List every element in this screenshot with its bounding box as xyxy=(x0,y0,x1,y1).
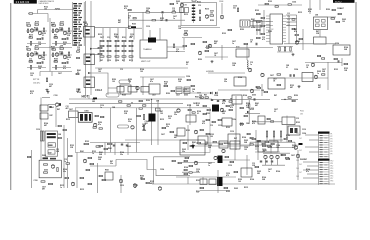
svg-text:470: 470 xyxy=(240,124,243,127)
wire bus x264 xyxy=(263,10,265,35)
component dark U10 top xyxy=(148,38,156,43)
resistor R216 xyxy=(69,155,73,156)
resistor R185 xyxy=(207,109,210,110)
svg-text:1n: 1n xyxy=(250,64,252,66)
svg-text:C12: C12 xyxy=(198,5,201,7)
resistor R217 xyxy=(66,163,70,164)
transistor Q7 xyxy=(55,53,58,56)
svg-text:470: 470 xyxy=(202,122,205,125)
svg-text:P4: P4 xyxy=(331,141,333,143)
resistor R192 xyxy=(240,107,243,108)
svg-text:CHASSIS 11AK19: CHASSIS 11AK19 xyxy=(39,0,54,3)
svg-text:4K7: 4K7 xyxy=(290,86,293,89)
svg-text:SW1: SW1 xyxy=(299,138,302,140)
wire vertical x188 xyxy=(187,125,189,150)
svg-text:R350: R350 xyxy=(122,95,126,97)
wire vertical x218 xyxy=(217,170,219,193)
resistor R258 xyxy=(184,169,187,170)
IC U43 xyxy=(186,115,196,122)
wire vertical x64 xyxy=(63,125,65,188)
svg-text:C417: C417 xyxy=(69,108,73,111)
svg-text:C234: C234 xyxy=(292,1,296,4)
IC U23 xyxy=(268,78,285,89)
IC U22 xyxy=(314,37,327,44)
resistor R214 xyxy=(49,183,53,184)
transistor Q50 xyxy=(250,89,253,92)
connector CN2 header xyxy=(318,159,330,161)
capacitor C111 xyxy=(294,74,295,76)
wire xyxy=(286,21,297,23)
svg-text:C417: C417 xyxy=(291,154,295,157)
resistor R150 xyxy=(279,47,280,51)
svg-text:22n: 22n xyxy=(120,154,123,156)
svg-text:R47: R47 xyxy=(50,114,53,117)
svg-text:100: 100 xyxy=(44,8,47,10)
svg-text:4K7: 4K7 xyxy=(255,104,258,107)
resistor R220 xyxy=(88,157,92,158)
svg-text:22n: 22n xyxy=(128,28,131,30)
IC U44 xyxy=(198,136,208,144)
resistor bank row3 R40 xyxy=(107,50,111,51)
wire xyxy=(257,140,259,160)
wire xyxy=(159,28,161,40)
resistor bank mid R37 xyxy=(122,45,126,46)
svg-text:4K7: 4K7 xyxy=(146,9,149,12)
svg-text:0.1: 0.1 xyxy=(197,113,199,115)
resistor R240 xyxy=(183,142,187,143)
resistor bank top R29 xyxy=(100,40,104,41)
power transistor Q51 dark xyxy=(212,105,219,112)
svg-text:22n: 22n xyxy=(233,7,236,9)
wire xyxy=(167,51,185,53)
svg-text:R215: R215 xyxy=(129,60,133,62)
resistor R155 xyxy=(277,74,281,75)
input arrow xyxy=(88,72,91,74)
resistor R22 xyxy=(52,49,56,50)
svg-text:C310: C310 xyxy=(218,125,222,127)
transistor Q32 xyxy=(314,75,317,78)
wire x295 drop xyxy=(294,142,296,150)
resistor R142 xyxy=(205,50,209,51)
resistor R196 xyxy=(188,109,191,110)
resistor R140 xyxy=(183,45,187,46)
wire drop q81 xyxy=(265,159,267,166)
resistor R152 xyxy=(290,47,291,51)
resistor R175 xyxy=(84,143,89,144)
svg-text:R47: R47 xyxy=(57,108,60,111)
wire bank rail 3 xyxy=(115,40,117,62)
svg-text:R661: R661 xyxy=(251,19,255,21)
transistor Q30 xyxy=(295,41,298,44)
resistor R133 xyxy=(331,18,335,19)
resistor ladder bar 16 xyxy=(74,38,78,39)
junction dot C3 xyxy=(230,98,231,99)
wire vertical x110 xyxy=(110,108,112,153)
diode D60 xyxy=(247,111,249,113)
resistor R127 xyxy=(288,4,291,5)
svg-text:100: 100 xyxy=(160,113,163,115)
svg-text:P2: P2 xyxy=(331,136,333,138)
wire xyxy=(127,143,129,156)
big box PSU primary outline xyxy=(75,108,210,153)
wire xyxy=(240,89,260,91)
resistor R136 xyxy=(257,21,261,22)
svg-text:C234: C234 xyxy=(115,59,119,62)
wire y146 xyxy=(195,145,250,147)
transformer T4 dark core xyxy=(78,113,92,123)
component U67 xyxy=(209,179,216,185)
connector J6 xyxy=(84,77,95,88)
svg-text:HOT: HOT xyxy=(82,95,89,99)
resistor R165 xyxy=(95,115,98,116)
resistor ladder bar 7 xyxy=(73,17,77,18)
svg-text:22n: 22n xyxy=(224,81,227,83)
wire CN1 stub 2 xyxy=(309,139,319,141)
resistor bank row3 R39 xyxy=(100,50,104,51)
svg-text:470: 470 xyxy=(30,92,33,95)
resistor R111 xyxy=(199,17,200,21)
resistor bank top R31 xyxy=(115,40,119,41)
wire xyxy=(205,142,230,144)
svg-text:0.1: 0.1 xyxy=(192,144,194,146)
resistor R235 xyxy=(172,160,175,161)
wire xyxy=(221,3,223,14)
transistor Q5 xyxy=(30,53,33,56)
svg-text:C234: C234 xyxy=(160,168,164,171)
U20 pin left 7 xyxy=(266,32,270,34)
svg-text:D205: D205 xyxy=(252,95,256,97)
resistor bank top R30 xyxy=(107,40,111,41)
resistor R169 xyxy=(58,137,61,138)
resistor R17 xyxy=(27,53,28,57)
resistor bank row4 R48 xyxy=(129,56,133,57)
resistor R21 xyxy=(30,66,31,70)
transistor Q53 xyxy=(194,130,197,133)
wire vertical x158 xyxy=(157,100,159,145)
resistor B2b xyxy=(98,53,102,54)
wire xyxy=(114,143,116,156)
resistor R189 xyxy=(206,119,209,120)
svg-text:P13: P13 xyxy=(331,168,334,170)
svg-text:1n: 1n xyxy=(192,91,194,93)
svg-text:R122: R122 xyxy=(85,141,89,143)
resistor R89 xyxy=(128,9,131,10)
resistor R200 xyxy=(248,97,251,98)
wire xyxy=(256,21,258,36)
resistor R115 xyxy=(237,8,238,12)
svg-text:4K7: 4K7 xyxy=(318,86,321,89)
resistor R248 xyxy=(189,165,193,166)
wire xyxy=(28,13,48,15)
svg-text:0.1: 0.1 xyxy=(292,147,294,149)
resistor R5 xyxy=(29,37,33,38)
resistor R82 xyxy=(76,73,79,74)
svg-text:C417: C417 xyxy=(58,72,62,75)
resistor R81 xyxy=(77,57,80,58)
svg-text:R215: R215 xyxy=(98,34,102,36)
wire vertical x271 xyxy=(270,143,272,153)
transistor Q10 xyxy=(180,3,183,6)
svg-text:C234: C234 xyxy=(142,129,146,132)
resistor R314 xyxy=(318,55,321,56)
resistor bank row3 R41 xyxy=(115,50,119,51)
component bar B3L xyxy=(93,98,97,100)
wire xyxy=(286,14,297,16)
svg-text:R77 1K: R77 1K xyxy=(33,79,40,81)
resistor R186 xyxy=(203,113,206,114)
capacitor C90 xyxy=(162,11,163,13)
filter FL1 xyxy=(253,21,262,28)
svg-text:R122: R122 xyxy=(255,10,259,12)
relay RL3 xyxy=(141,87,149,93)
svg-text:47u: 47u xyxy=(306,170,309,173)
svg-text:47u: 47u xyxy=(246,104,249,107)
resistor ladder bar 12 xyxy=(74,28,78,29)
resistor ladder bar 6 xyxy=(74,15,78,16)
resistor R167 xyxy=(58,125,61,126)
wire vertical x41 xyxy=(40,98,42,161)
wire B2 mid xyxy=(140,76,185,78)
svg-text:P18: P18 xyxy=(331,181,334,183)
resistor R172 xyxy=(137,115,141,116)
svg-text:R122: R122 xyxy=(186,130,190,132)
inductor L6b pill xyxy=(118,125,129,128)
wire CN1 stub 3 xyxy=(305,146,319,148)
svg-text:COL3: COL3 xyxy=(95,88,102,92)
wire vertical x236 xyxy=(235,96,237,150)
IC U53 xyxy=(288,126,300,135)
diode D50 xyxy=(210,92,212,94)
resistor R16 xyxy=(35,48,39,49)
connector J5 xyxy=(84,54,95,65)
svg-text:C310: C310 xyxy=(36,129,40,131)
capacitor C144 xyxy=(280,131,281,137)
svg-text:R661: R661 xyxy=(35,46,39,48)
transistor Q75 xyxy=(194,161,197,164)
capacitor C132 xyxy=(217,101,219,102)
resistor R113 xyxy=(192,0,196,1)
wire xyxy=(47,14,49,23)
wire vertical x190 xyxy=(189,104,191,125)
wire xyxy=(261,84,263,96)
svg-text:R215: R215 xyxy=(83,22,87,24)
svg-text:R350: R350 xyxy=(210,20,214,22)
svg-text:C310: C310 xyxy=(146,26,150,28)
wire xyxy=(27,43,46,45)
svg-text:C55 47u: C55 47u xyxy=(33,83,40,85)
title block top-left xyxy=(14,0,37,4)
wire xyxy=(259,24,261,35)
svg-text:C88: C88 xyxy=(112,107,115,109)
svg-text:SW3: SW3 xyxy=(299,150,302,152)
wire y99 ext1 xyxy=(212,98,270,100)
svg-text:D205: D205 xyxy=(60,22,64,24)
resistor R143 xyxy=(187,79,190,80)
svg-text:R215: R215 xyxy=(298,12,302,14)
svg-text:100: 100 xyxy=(238,181,241,183)
U20 pin right 5 xyxy=(283,26,287,28)
ladder 3-bar D2 xyxy=(277,46,293,48)
resistor R236 xyxy=(178,162,181,163)
svg-text:C417: C417 xyxy=(176,94,180,97)
wire xyxy=(26,30,47,32)
resistor R100 xyxy=(173,44,174,48)
svg-text:100: 100 xyxy=(244,149,247,151)
breaker BR1 xyxy=(236,49,249,57)
winding W1 xyxy=(48,143,55,147)
IC U50 xyxy=(258,116,265,124)
resistor bank row4 R46 xyxy=(115,56,119,57)
transistor Q40 xyxy=(56,103,59,106)
capacitor C151 xyxy=(126,145,128,146)
svg-text:100: 100 xyxy=(210,136,213,138)
resistor R160 xyxy=(41,131,42,141)
svg-text:D205: D205 xyxy=(85,111,89,113)
transformer T1 xyxy=(240,20,250,27)
svg-text:R104: R104 xyxy=(184,166,188,169)
svg-text:C310: C310 xyxy=(120,185,124,187)
capacitor C2 xyxy=(42,37,43,39)
svg-text:C417: C417 xyxy=(161,133,165,136)
svg-text:SW6: SW6 xyxy=(296,168,299,170)
svg-text:2K2: 2K2 xyxy=(257,173,260,175)
wire xyxy=(205,56,228,58)
wire CN2 stub 5 xyxy=(303,177,319,179)
transistor Q2 xyxy=(38,31,41,34)
wire xyxy=(221,45,223,60)
resistor R222 xyxy=(86,169,90,170)
svg-text:2K2: 2K2 xyxy=(140,177,143,179)
svg-text:R350: R350 xyxy=(226,191,230,193)
wire xyxy=(142,77,144,95)
U20 pin left 8 xyxy=(266,35,270,37)
resistor bank top R32 xyxy=(122,40,126,41)
resistor R207 xyxy=(247,133,250,134)
resistor R1 xyxy=(29,13,33,14)
svg-text:C234: C234 xyxy=(337,7,341,10)
svg-text:R104: R104 xyxy=(243,94,247,97)
wire xyxy=(149,30,151,37)
U20 pin left 3 xyxy=(266,21,270,23)
svg-text:D205: D205 xyxy=(184,95,188,97)
capacitor C7 xyxy=(61,53,63,54)
resistor R28 xyxy=(55,66,56,70)
wire vertical x97 B4 xyxy=(97,163,99,193)
inductor L6 pill xyxy=(106,93,119,97)
transistor Q3 xyxy=(55,29,58,32)
resistor ladder bar 11 xyxy=(73,26,77,27)
resistor R195 xyxy=(229,101,232,102)
svg-text:R122: R122 xyxy=(296,122,300,124)
svg-text:C88: C88 xyxy=(261,90,264,92)
wire y77 D2 xyxy=(277,77,328,79)
svg-text:R104: R104 xyxy=(238,76,242,79)
transistor Q6 xyxy=(38,55,41,58)
resistor R193 xyxy=(244,115,247,116)
wire xyxy=(222,159,250,161)
capacitor C165 xyxy=(271,161,273,162)
transistor Q20 xyxy=(205,15,208,18)
wire y103 xyxy=(69,102,183,104)
wire drop q83 xyxy=(277,159,279,166)
transistor Q24 xyxy=(261,73,264,76)
wire main divider y99 xyxy=(69,98,212,100)
svg-text:100: 100 xyxy=(51,48,54,50)
capacitor C60 xyxy=(78,89,80,90)
U20 pin right 6 xyxy=(283,29,287,31)
IC U46 xyxy=(177,128,185,136)
resistor R173 xyxy=(143,115,144,120)
svg-text:R122: R122 xyxy=(122,37,126,39)
wire y152 D4t xyxy=(255,151,280,153)
IC U42 xyxy=(228,134,240,144)
wire x320 link xyxy=(319,30,321,38)
potentiometer VR1 xyxy=(220,15,223,18)
svg-text:R215: R215 xyxy=(244,187,248,189)
svg-text:SW5: SW5 xyxy=(299,164,302,166)
wire y113 xyxy=(245,113,260,115)
wire xyxy=(218,89,248,91)
wire top x310 xyxy=(309,0,311,14)
trimmer bar 6 xyxy=(192,20,195,22)
svg-text:R47: R47 xyxy=(234,137,237,140)
wire xyxy=(108,87,117,89)
resistor R139 xyxy=(261,33,265,34)
triangle marker xyxy=(191,145,195,149)
diode D51 xyxy=(215,92,217,94)
svg-text:P9: P9 xyxy=(331,154,333,156)
resistor R117 xyxy=(203,41,207,42)
wire box double bottom xyxy=(181,27,220,29)
wire xyxy=(250,25,273,27)
wire vertical x31 xyxy=(30,150,32,188)
resistor R154 xyxy=(344,63,348,64)
svg-text:100: 100 xyxy=(98,71,101,73)
resistor R177 xyxy=(108,143,113,144)
resistor R14 xyxy=(55,42,56,46)
svg-text:470: 470 xyxy=(262,38,265,41)
wire vertical x136 xyxy=(136,108,138,153)
resistor R191b xyxy=(200,129,203,130)
svg-text:TUN: TUN xyxy=(183,5,188,7)
svg-text:100: 100 xyxy=(112,81,115,83)
resistor R252 xyxy=(255,166,259,167)
svg-text:R350: R350 xyxy=(294,95,298,97)
wire x342 stub xyxy=(341,58,343,66)
resistor R171 xyxy=(99,128,102,129)
capacitor C141 xyxy=(254,98,255,100)
svg-text:C12: C12 xyxy=(251,108,254,110)
resistor R24 xyxy=(52,53,53,57)
resistor R176 xyxy=(96,146,101,147)
resistor R231 xyxy=(104,148,108,149)
svg-text:VERT OUT: VERT OUT xyxy=(141,61,151,63)
svg-text:C310: C310 xyxy=(230,131,234,133)
ground G4 xyxy=(47,91,50,94)
svg-text:100: 100 xyxy=(128,81,131,83)
relay RL1 xyxy=(117,87,124,93)
svg-text:R350: R350 xyxy=(296,41,300,43)
power transistor Q76 dark xyxy=(218,156,223,164)
svg-text:0.1: 0.1 xyxy=(274,111,276,113)
resistor R242 xyxy=(197,142,201,143)
resistor R264 xyxy=(263,145,266,146)
transistor Q22 xyxy=(198,51,201,54)
svg-text:C310: C310 xyxy=(107,60,111,62)
capacitor C143 xyxy=(273,131,274,137)
connector CN1 header xyxy=(318,132,330,134)
resistor R166 xyxy=(101,116,104,117)
